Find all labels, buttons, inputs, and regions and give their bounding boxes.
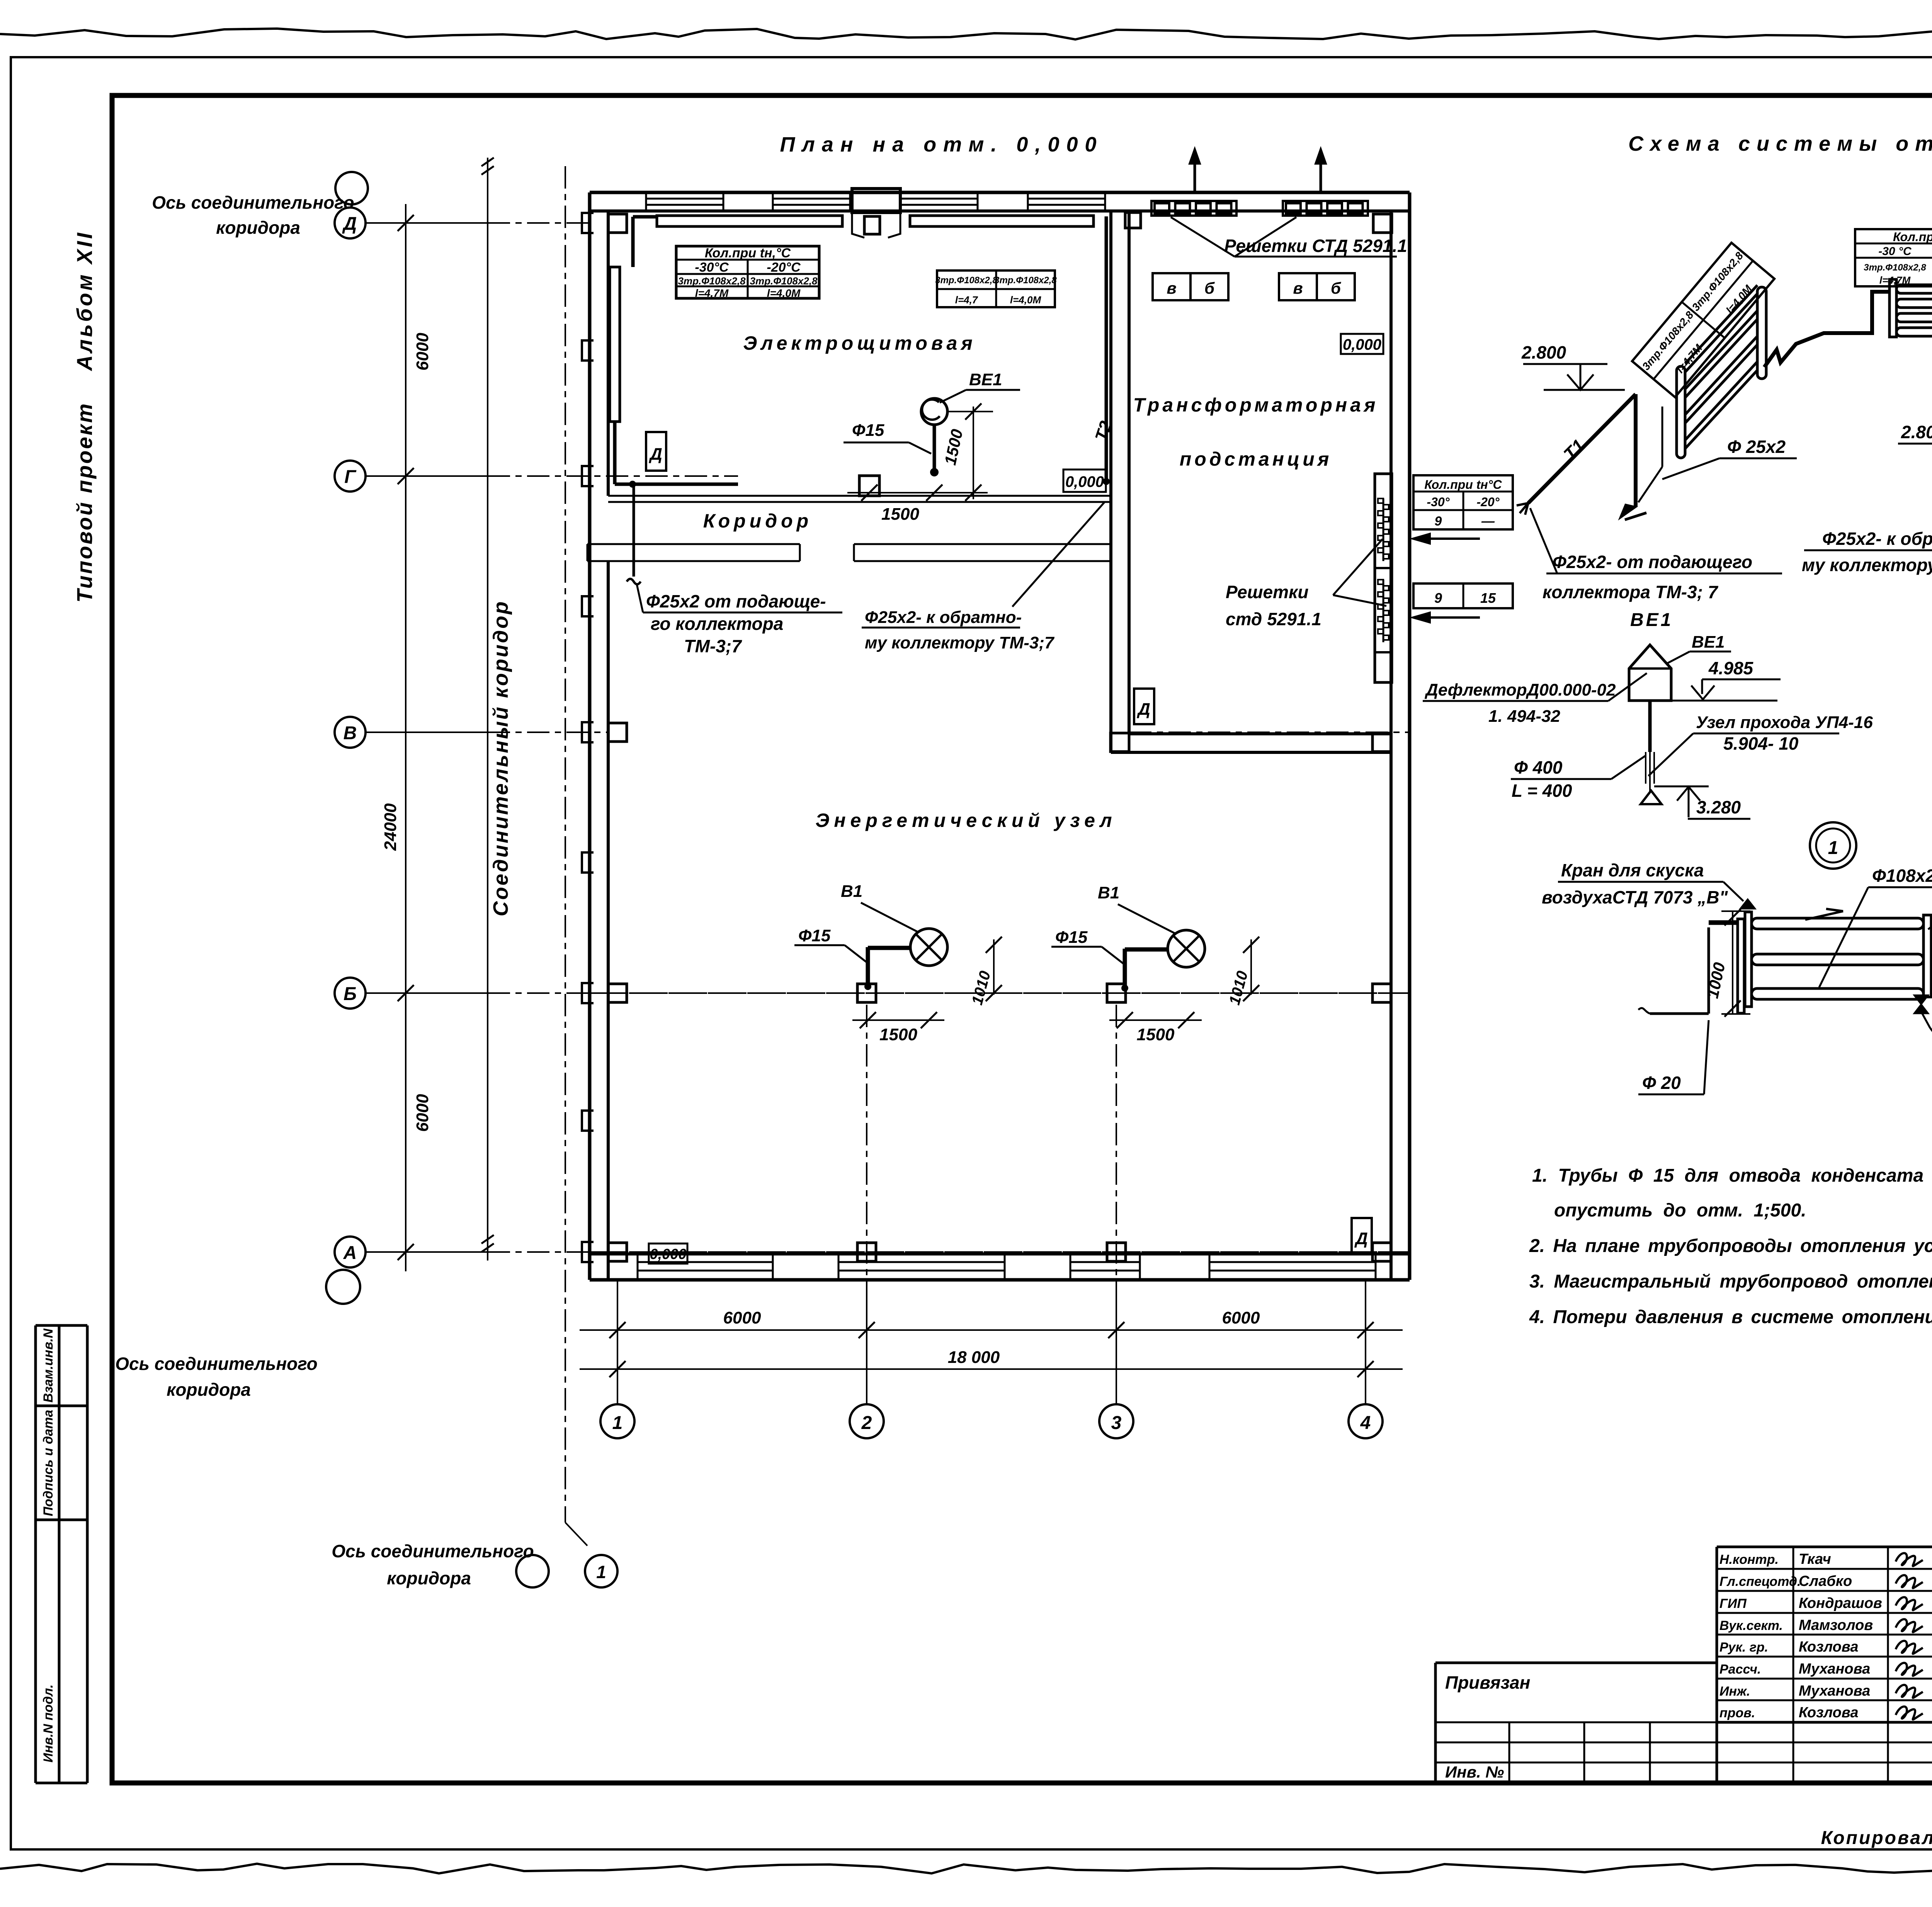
svg-text:Ось соединительного: Ось соединительного — [152, 192, 354, 213]
svg-text:В: В — [344, 723, 357, 743]
svg-text:Рассч.: Рассч. — [1719, 1662, 1761, 1677]
svg-text:1500: 1500 — [881, 505, 919, 524]
svg-text:0,000: 0,000 — [1343, 336, 1381, 353]
svg-text:Рук. гр.: Рук. гр. — [1719, 1640, 1768, 1655]
svg-text:Трансформаторная: Трансформаторная — [1133, 394, 1379, 416]
svg-text:24000: 24000 — [381, 803, 400, 851]
svg-text:2.800: 2.800 — [1901, 422, 1932, 442]
svg-text:подстанция: подстанция — [1180, 448, 1332, 470]
svg-text:Ф 20: Ф 20 — [1642, 1073, 1681, 1093]
svg-text:Ф25х2- к обратно-: Ф25х2- к обратно- — [1822, 529, 1932, 549]
svg-text:Мамзолов: Мамзолов — [1799, 1617, 1873, 1633]
svg-text:Ф 25х2: Ф 25х2 — [1727, 437, 1786, 457]
svg-text:3тр.Ф108х2,8: 3тр.Ф108х2,8 — [678, 275, 746, 287]
svg-text:3тр.Ф108х2,8: 3тр.Ф108х2,8 — [994, 275, 1057, 286]
svg-text:3тр.Ф108х2,8: 3тр.Ф108х2,8 — [935, 275, 998, 286]
svg-text:воздухаСТД 7073 „В": воздухаСТД 7073 „В" — [1542, 887, 1728, 907]
svg-text:9: 9 — [1435, 514, 1442, 529]
svg-text:Соединительный коридор: Соединительный коридор — [489, 600, 512, 917]
svg-text:2: 2 — [861, 1413, 872, 1433]
svg-text:Взам.инв.N: Взам.инв.N — [41, 1328, 56, 1403]
svg-text:Слабко: Слабко — [1799, 1573, 1852, 1589]
svg-text:9: 9 — [1434, 590, 1442, 606]
svg-text:Ось соединительного: Ось соединительного — [115, 1354, 317, 1374]
svg-text:Ф15: Ф15 — [798, 926, 831, 945]
svg-text:опустить до отм. 1;500.: опустить до отм. 1;500. — [1554, 1200, 1806, 1221]
svg-text:му коллектору ТМ-3;7: му коллектору ТМ-3;7 — [1802, 555, 1932, 575]
svg-text:Схема системы отопления: Схема системы отопления — [1628, 132, 1932, 155]
svg-text:5.904- 10: 5.904- 10 — [1723, 733, 1799, 754]
svg-text:3тр.Ф108х2,8: 3тр.Ф108х2,8 — [1864, 262, 1926, 273]
svg-text:коридора: коридора — [167, 1380, 251, 1400]
svg-text:ТМ-3;7: ТМ-3;7 — [684, 636, 742, 656]
svg-text:Кол.при t н °С: Кол.при t н °С — [1893, 230, 1932, 244]
svg-text:В1: В1 — [841, 882, 862, 901]
svg-text:Д: Д — [648, 445, 662, 464]
svg-text:Ф 400: Ф 400 — [1514, 757, 1563, 777]
svg-text:L = 400: L = 400 — [1512, 781, 1572, 801]
svg-text:3: 3 — [1111, 1413, 1122, 1433]
svg-text:Привязан: Привязан — [1445, 1672, 1530, 1693]
svg-text:0,000: 0,000 — [1065, 473, 1104, 490]
svg-text:коридора: коридора — [216, 218, 300, 238]
svg-text:Козлова: Козлова — [1799, 1705, 1858, 1721]
svg-text:Ось соединительного: Ось соединительного — [332, 1541, 534, 1561]
svg-text:Ф25х2 от подающе-: Ф25х2 от подающе- — [646, 591, 826, 611]
svg-text:-30°С: -30°С — [695, 260, 729, 275]
svg-text:Н.контр.: Н.контр. — [1719, 1552, 1779, 1567]
svg-text:6000: 6000 — [723, 1308, 761, 1327]
svg-text:Узел прохода УП4-16: Узел прохода УП4-16 — [1696, 713, 1873, 732]
svg-text:4.985: 4.985 — [1708, 658, 1754, 678]
svg-text:Альбом XII: Альбом XII — [72, 231, 97, 372]
svg-text:1500: 1500 — [1137, 1025, 1175, 1044]
svg-text:А: А — [343, 1243, 357, 1263]
svg-text:1500: 1500 — [879, 1025, 917, 1044]
svg-text:3.280: 3.280 — [1696, 797, 1741, 817]
svg-text:—: — — [1481, 514, 1495, 529]
svg-text:Ф108х2,8: Ф108х2,8 — [1872, 866, 1932, 886]
svg-text:Б: Б — [344, 984, 357, 1004]
svg-text:2.800: 2.800 — [1521, 342, 1566, 362]
svg-text:3. Магистральный трубопровод о: 3. Магистральный трубопровод отопления п… — [1529, 1271, 1932, 1292]
svg-text:Инв. №: Инв. № — [1445, 1763, 1504, 1781]
svg-text:ВЕ1: ВЕ1 — [1692, 633, 1725, 652]
svg-text:3тр.Ф108х2,8: 3тр.Ф108х2,8 — [750, 275, 818, 287]
svg-text:0,000: 0,000 — [650, 1246, 686, 1262]
svg-text:План на отм. 0,000: План на отм. 0,000 — [780, 133, 1103, 156]
svg-text:Кран для скуска: Кран для скуска — [1561, 860, 1704, 880]
svg-text:Ткач: Ткач — [1799, 1551, 1831, 1567]
svg-text:Электрощитовая: Электрощитовая — [743, 332, 976, 354]
svg-text:му коллектору ТМ-3;7: му коллектору ТМ-3;7 — [865, 633, 1055, 652]
svg-text:Инж.: Инж. — [1719, 1684, 1750, 1699]
svg-text:6000: 6000 — [413, 333, 432, 371]
svg-text:1: 1 — [612, 1413, 623, 1433]
svg-text:Ф15: Ф15 — [1055, 928, 1088, 947]
svg-text:4: 4 — [1360, 1413, 1371, 1433]
svg-text:Кол.при tн°С: Кол.при tн°С — [1424, 478, 1502, 492]
svg-text:Вук.сект.: Вук.сект. — [1719, 1618, 1783, 1633]
svg-text:Д: Д — [1354, 1229, 1368, 1248]
svg-text:Ф15: Ф15 — [852, 421, 884, 440]
svg-text:Кол.при tн,°С: Кол.при tн,°С — [705, 246, 791, 260]
svg-text:Энергетический узел: Энергетический узел — [815, 810, 1116, 831]
svg-text:Решетки: Решетки — [1226, 582, 1308, 602]
svg-text:Типовой проект: Типовой проект — [72, 402, 97, 602]
svg-text:-20°С: -20°С — [767, 260, 801, 275]
svg-text:Копировал Попова: Копировал Попова — [1821, 1828, 1932, 1848]
svg-text:ВЕ1: ВЕ1 — [969, 370, 1002, 389]
svg-text:коридора: коридора — [387, 1568, 471, 1588]
svg-text:1. Трубы Ф 15 для отвода конде: 1. Трубы Ф 15 для отвода конденсата от с… — [1532, 1165, 1932, 1186]
svg-text:-30 °С: -30 °С — [1878, 245, 1912, 258]
svg-text:1: 1 — [596, 1562, 606, 1582]
svg-text:l=4,0М: l=4,0М — [1010, 294, 1042, 306]
svg-text:Инв.N подл.: Инв.N подл. — [41, 1684, 56, 1762]
svg-text:в: в — [1167, 279, 1176, 297]
svg-text:ДефлекторД00.000-02: ДефлекторД00.000-02 — [1424, 680, 1616, 699]
svg-text:б: б — [1331, 279, 1341, 297]
svg-text:Коридор: Коридор — [703, 510, 812, 532]
svg-text:в: в — [1293, 279, 1303, 297]
svg-text:18 000: 18 000 — [948, 1348, 1000, 1367]
svg-text:Подпись и дата: Подпись и дата — [41, 1410, 56, 1516]
svg-text:Гл.спецотд.: Гл.спецотд. — [1719, 1574, 1801, 1589]
svg-text:Д: Д — [342, 214, 357, 234]
svg-text:Г: Г — [344, 467, 357, 487]
svg-text:6000: 6000 — [413, 1094, 432, 1132]
svg-text:Кондрашов: Кондрашов — [1799, 1595, 1882, 1611]
svg-text:6000: 6000 — [1222, 1308, 1260, 1327]
svg-text:б: б — [1204, 279, 1215, 297]
svg-text:l=4,0М: l=4,0М — [767, 287, 801, 299]
svg-text:ГИП: ГИП — [1719, 1596, 1747, 1611]
svg-text:15: 15 — [1480, 590, 1496, 606]
svg-text:пров.: пров. — [1719, 1706, 1755, 1720]
svg-text:го коллектора: го коллектора — [651, 614, 783, 634]
svg-text:4. Потери давления в системе о: 4. Потери давления в системе отопления с… — [1529, 1307, 1932, 1327]
svg-text:1. 494-32: 1. 494-32 — [1488, 707, 1560, 726]
svg-text:l=4,7: l=4,7 — [955, 294, 978, 306]
svg-text:коллектора ТМ-3; 7: коллектора ТМ-3; 7 — [1543, 582, 1719, 602]
svg-text:-30°: -30° — [1427, 495, 1449, 509]
svg-text:Козлова: Козлова — [1799, 1639, 1858, 1655]
svg-text:В1: В1 — [1098, 883, 1119, 902]
svg-text:ВЕ1: ВЕ1 — [1630, 610, 1673, 630]
svg-text:Ф25х2- к обратно-: Ф25х2- к обратно- — [865, 608, 1022, 627]
svg-text:l=4,7М: l=4,7М — [695, 287, 729, 299]
svg-text:-20°: -20° — [1476, 495, 1499, 509]
svg-text:Ф25х2- от подающего: Ф25х2- от подающего — [1553, 552, 1752, 572]
svg-text:l=4,7М: l=4,7М — [1879, 274, 1911, 286]
svg-text:2. На плане трубопроводы отопл: 2. На плане трубопроводы отопления услов… — [1529, 1236, 1932, 1256]
svg-text:Муханова: Муханова — [1799, 1661, 1870, 1677]
svg-text:стд 5291.1: стд 5291.1 — [1226, 609, 1321, 629]
svg-text:1: 1 — [1828, 838, 1838, 858]
svg-text:Д: Д — [1136, 700, 1150, 719]
svg-text:Муханова: Муханова — [1799, 1683, 1870, 1699]
